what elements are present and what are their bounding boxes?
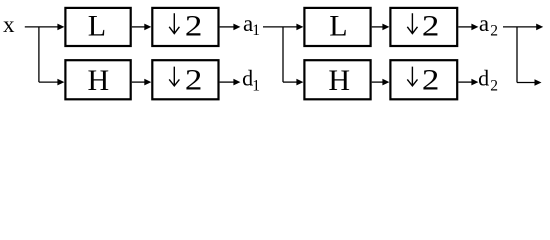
downsampler DS2a (down-arrow 2)	[390, 8, 457, 46]
wire: H1 to downsampler DS1b	[132, 81, 145, 83]
svg-text:2: 2	[422, 63, 440, 96]
wire: junction J1 down	[38, 27, 40, 82]
wire: DS1a to node a1	[220, 26, 234, 28]
svg-text:2: 2	[490, 23, 498, 40]
svg-text:d: d	[478, 66, 489, 91]
wire: L1 to downsampler DS1a	[132, 26, 145, 28]
downsampler DS1b (down-arrow 2)	[152, 60, 218, 99]
wire: junction J1 to filter H1	[39, 81, 58, 83]
wire: input x to filter L1	[25, 26, 58, 28]
filter L1 (low-pass)	[65, 8, 130, 46]
wire: junction J3 down	[516, 27, 518, 83]
svg-text:a: a	[479, 11, 489, 36]
filter L2 (low-pass)	[304, 8, 370, 46]
svg-text:x: x	[3, 12, 15, 37]
filter H2 (high-pass)	[304, 60, 370, 99]
svg-text:H: H	[87, 64, 109, 97]
wire: H2 to downsampler DS2b	[372, 81, 383, 83]
svg-text:2: 2	[422, 9, 440, 42]
svg-text:2: 2	[185, 9, 203, 42]
wire: DS2b to node d2	[458, 81, 472, 83]
wire: L2 to downsampler DS2a	[372, 26, 383, 28]
svg-text:1: 1	[252, 22, 260, 39]
svg-text:1: 1	[252, 77, 260, 94]
wire: junction J3 onward to next stage H	[517, 82, 535, 84]
wire: a2 onward to next stage	[503, 26, 537, 28]
wire: a1 to filter L2	[263, 26, 297, 28]
svg-text:2: 2	[490, 78, 498, 95]
wire: junction J2 to filter H2	[283, 81, 297, 83]
wire: DS1b to node d1	[220, 81, 234, 83]
wire: junction J2 down	[282, 27, 284, 82]
svg-text:L: L	[329, 9, 347, 42]
svg-text:2: 2	[185, 63, 203, 96]
filter H1 (high-pass)	[65, 60, 130, 99]
downsampler DS2b (down-arrow 2)	[390, 60, 457, 99]
svg-text:H: H	[328, 64, 350, 97]
downsampler DS1a (down-arrow 2)	[152, 8, 218, 46]
svg-text:L: L	[88, 9, 106, 42]
wire: DS2a to node a2	[458, 26, 472, 28]
